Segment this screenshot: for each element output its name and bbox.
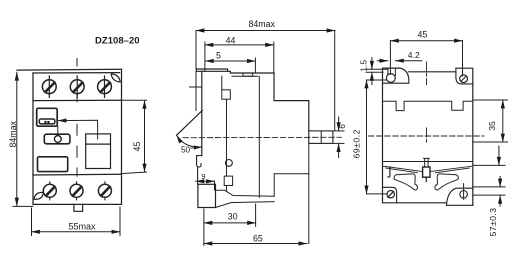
wire window to button <box>57 126 59 135</box>
reset button plate <box>44 134 70 144</box>
top-right screw hole <box>460 75 468 83</box>
side view top tab <box>243 73 253 76</box>
dimension 4.2 <box>377 60 422 62</box>
reset button circle <box>54 136 61 143</box>
toggle sweep arc <box>177 135 202 147</box>
rear cover seam with notches <box>383 101 473 110</box>
din clip L bracket <box>388 167 390 177</box>
screw terminal bottom-right <box>98 182 111 200</box>
side view front lower edge <box>197 168 199 185</box>
svg-text:1.5: 1.5 <box>358 60 368 72</box>
screw terminal bottom-left <box>43 182 56 200</box>
svg-text:4.2: 4.2 <box>408 50 420 60</box>
side view front hook <box>196 156 201 167</box>
din clip spring left <box>384 166 422 173</box>
din clip spring right <box>431 166 472 173</box>
dimension 57±0.3 <box>473 146 505 206</box>
svg-text:65: 65 <box>253 233 263 243</box>
corner leaf top-right <box>111 74 120 82</box>
front view top separator <box>33 99 121 101</box>
bottom-right screw <box>460 191 468 199</box>
dimension 65 <box>204 243 307 245</box>
indicator window marks <box>44 121 49 124</box>
side view upper right step <box>274 73 309 131</box>
svg-text:35: 35 <box>487 121 497 131</box>
rear mounting ear top-right <box>456 68 473 84</box>
side view front face <box>201 71 203 155</box>
top-left slot <box>388 68 396 75</box>
dimension 84max left <box>13 72 33 206</box>
top-right screw slot <box>461 76 466 81</box>
rear mounting ear top-left <box>383 68 409 83</box>
dimension 35 <box>473 100 508 142</box>
side view rear face <box>308 143 310 243</box>
dimension 30 <box>204 204 256 246</box>
svg-text:84max: 84max <box>8 120 18 147</box>
svg-text:57±0.3: 57±0.3 <box>488 208 498 237</box>
side view toggle lever <box>177 111 203 136</box>
side view front plate edge <box>195 71 197 110</box>
screw terminal top-middle <box>70 76 84 97</box>
side view lever pivot tick <box>190 86 202 88</box>
din clip pins <box>424 158 430 167</box>
leader arrow window to dial <box>58 120 98 139</box>
bottom tab <box>74 204 83 211</box>
dimension 6 <box>334 117 344 158</box>
side view lower skirt <box>216 202 275 208</box>
rear view body <box>383 68 473 205</box>
dimension 45 rear <box>390 41 462 76</box>
indicator window inner bar <box>39 119 55 124</box>
svg-text:5: 5 <box>216 51 221 61</box>
svg-text:45: 45 <box>132 142 142 152</box>
terminal clamp box <box>309 131 333 144</box>
dimension 69±0.2 <box>367 80 388 194</box>
rear view top mid edge <box>409 71 456 73</box>
front view center line <box>76 59 78 177</box>
bottom-left screw <box>387 191 394 198</box>
side view square notch <box>224 176 232 185</box>
svg-text:44: 44 <box>226 35 236 45</box>
dimension 9 <box>196 181 215 190</box>
adjust dial rect <box>86 134 111 169</box>
bottom-right screw slot <box>463 184 465 200</box>
terminal clamp divider <box>320 131 322 144</box>
screw terminal top-right <box>98 76 112 97</box>
side view inner tab <box>222 90 231 99</box>
svg-text:55max: 55max <box>69 222 97 232</box>
top-left screw hole <box>386 74 395 83</box>
dimension 5 <box>205 58 255 73</box>
side view centerline dashed <box>183 136 342 138</box>
bottom-left mount ear <box>383 187 397 202</box>
svg-text:DZ108–20: DZ108–20 <box>95 35 140 46</box>
din clip left wing <box>394 174 418 190</box>
din clip right wing <box>435 174 459 190</box>
svg-text:45: 45 <box>418 30 428 40</box>
din clip center tab <box>423 167 430 177</box>
side view small circle <box>226 160 233 167</box>
svg-text:6: 6 <box>337 124 347 129</box>
svg-text:30: 30 <box>228 212 238 222</box>
side view top recess <box>232 75 258 77</box>
rear horizontal centerline dashed <box>369 135 485 137</box>
side view inner seam upper <box>221 76 223 90</box>
screw terminal top-left <box>42 76 56 97</box>
dimension 55max bottom <box>32 207 121 236</box>
dimension 44 <box>205 42 274 73</box>
svg-text:50°: 50° <box>181 146 193 155</box>
corner leaf bottom-left <box>34 192 43 199</box>
front view body outline <box>17 69 122 204</box>
indicator window <box>37 108 58 126</box>
side view flange bar <box>196 69 227 71</box>
side view rear seam <box>274 174 309 197</box>
dimension 84max top <box>196 31 335 132</box>
side view mid seam <box>258 76 260 197</box>
side view inner seam lower <box>226 99 228 176</box>
lower rect plate <box>38 157 68 172</box>
dimension 45 front view <box>121 100 147 173</box>
front view bottom separator <box>33 173 121 176</box>
dimension 1.5 <box>366 58 387 85</box>
side view top surface <box>228 71 274 73</box>
screw terminal bottom-middle <box>70 182 83 200</box>
side view foot <box>198 184 216 207</box>
side view lower step <box>216 190 275 196</box>
svg-text:84max: 84max <box>249 19 276 29</box>
side view notch to step <box>226 186 228 191</box>
bottom-left screw slot <box>388 191 394 197</box>
svg-text:69±0.2: 69±0.2 <box>351 129 361 159</box>
svg-text:9: 9 <box>201 172 205 181</box>
din clip top line <box>383 161 473 163</box>
bottom-right mount ear <box>446 188 472 205</box>
rear vertical centerline <box>426 62 428 144</box>
